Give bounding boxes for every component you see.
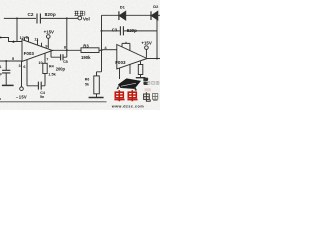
node C1 junction xyxy=(5,60,7,62)
svg-text:−15V: −15V xyxy=(16,95,27,100)
node C3 tee xyxy=(101,30,103,32)
svg-text:D1: D1 xyxy=(120,4,126,9)
capacitor C5 leads xyxy=(51,56,67,58)
capacitor C2 xyxy=(37,14,40,24)
output terminal circle xyxy=(78,16,82,20)
pin 6 stub to -15V xyxy=(21,62,23,87)
svg-text:3: 3 xyxy=(19,64,21,68)
capacitor C4 plates xyxy=(38,82,41,90)
svg-text:D2: D2 xyxy=(153,4,159,9)
watermark small gray chars right xyxy=(152,94,157,101)
svg-text:10: 10 xyxy=(38,61,42,65)
resistor R6 5k vertical xyxy=(94,76,100,94)
capacitor C3 plates xyxy=(120,26,123,35)
node junction top-left xyxy=(16,17,18,19)
wire op-amp1 output xyxy=(53,49,102,51)
resistor R4 1.5k vertical xyxy=(43,63,47,73)
label 输出 glyph blocks xyxy=(75,11,85,16)
bottom rail xyxy=(0,101,107,103)
pin 3 stub xyxy=(26,60,28,86)
watermark dark blob xyxy=(117,78,142,90)
watermark faint gray row xyxy=(147,81,159,84)
node after R3 xyxy=(101,49,103,51)
pin 1 stub and bridge xyxy=(25,37,29,42)
wire into op-amp2 xyxy=(102,49,117,51)
svg-text:190k: 190k xyxy=(81,55,91,60)
diode D2 xyxy=(150,11,152,20)
node output2 junction xyxy=(156,58,158,60)
capacitor C5 plates xyxy=(61,54,63,60)
watermark red char 1 xyxy=(114,90,124,101)
wire left input xyxy=(0,38,22,42)
svg-text:5k: 5k xyxy=(85,82,89,86)
pin 7 stub xyxy=(50,51,52,57)
wire to R6 5k xyxy=(97,72,102,76)
svg-text:F003: F003 xyxy=(115,60,126,65)
svg-text:7: 7 xyxy=(46,57,48,61)
diode D1 xyxy=(118,11,120,20)
svg-text:+15V: +15V xyxy=(44,30,54,35)
capacitor C1 xyxy=(5,61,7,70)
pin 11 stub xyxy=(37,39,39,45)
wire node vertical to diodes xyxy=(101,15,103,72)
ground C1 xyxy=(2,84,14,86)
svg-text:1: 1 xyxy=(26,35,28,39)
svg-text:R6: R6 xyxy=(85,78,90,82)
watermark dark char dian xyxy=(144,92,151,101)
resistor R3 190k xyxy=(81,48,99,53)
svg-text:C3: C3 xyxy=(112,28,118,33)
ground R7 xyxy=(140,75,142,78)
wire C3 branch xyxy=(102,30,158,32)
watermark red char 2 xyxy=(127,90,137,101)
svg-text:820p: 820p xyxy=(45,12,56,17)
wire pin5 input xyxy=(0,60,22,62)
wire feedback vertical xyxy=(66,18,68,57)
text labels xyxy=(0,4,159,101)
capacitor C4 leads xyxy=(27,85,45,87)
node output junction xyxy=(66,49,68,51)
pin stub U2 bottom a xyxy=(119,68,121,79)
pin stub extra xyxy=(41,43,43,47)
ground R6 xyxy=(96,94,98,97)
wire top feedback rail xyxy=(4,17,78,19)
svg-text:8: 8 xyxy=(64,46,66,50)
op-amp U2 F003 triangle xyxy=(117,45,147,70)
wire right feedback vertical xyxy=(156,15,158,58)
wire op-amp2 output xyxy=(147,58,160,60)
svg-text:C5: C5 xyxy=(63,60,68,64)
svg-text:www.dzsc.com: www.dzsc.com xyxy=(111,105,145,109)
-15V supply terminal xyxy=(20,87,24,91)
op-amp U1 F003 triangle xyxy=(22,40,53,62)
pin stubs U2 top bridge xyxy=(122,42,130,51)
svg-text:5n: 5n xyxy=(40,95,44,99)
svg-text:R3: R3 xyxy=(83,43,89,48)
wire diode rail xyxy=(102,14,161,16)
svg-text:C2: C2 xyxy=(28,12,34,17)
svg-text:+15V: +15V xyxy=(141,40,151,45)
svg-text:F003: F003 xyxy=(24,51,35,56)
resistor R7 vertical xyxy=(140,61,142,64)
pin 12 stub xyxy=(24,37,26,40)
svg-text:1.5k: 1.5k xyxy=(48,72,56,76)
svg-text:12: 12 xyxy=(20,36,24,40)
pin 10 stub xyxy=(44,53,46,63)
svg-text:9: 9 xyxy=(45,45,47,49)
svg-text:820p: 820p xyxy=(127,28,137,33)
svg-text:200p: 200p xyxy=(56,66,66,71)
+15V supply terminal U2 xyxy=(145,46,149,50)
svg-text:1: 1 xyxy=(0,65,2,69)
svg-text:6: 6 xyxy=(23,65,25,69)
wire junction down to input xyxy=(16,18,18,41)
node feedback top junction xyxy=(66,17,68,19)
svg-text:Vol: Vol xyxy=(83,16,90,21)
+15V supply terminal U1 xyxy=(47,35,51,39)
svg-text:11: 11 xyxy=(34,37,38,41)
pin stub U2 bottom b xyxy=(129,64,131,74)
